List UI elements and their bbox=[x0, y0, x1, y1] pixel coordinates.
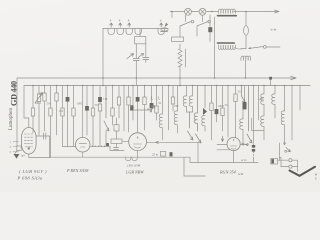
svg-text:1SSt 1t5W: 1SSt 1t5W bbox=[127, 164, 141, 168]
svg-text:P REN SA38: P REN SA38 bbox=[66, 168, 89, 173]
svg-text:( LGB 9GV ): ( LGB 9GV ) bbox=[19, 169, 47, 174]
svg-text:w G: w G bbox=[241, 158, 247, 162]
svg-text:1n5: 1n5 bbox=[21, 155, 26, 158]
svg-text:1M: 1M bbox=[59, 109, 64, 113]
svg-text:5M: 5M bbox=[47, 102, 52, 106]
svg-text:0M1: 0M1 bbox=[35, 101, 41, 105]
svg-text:0M1: 0M1 bbox=[218, 104, 224, 108]
svg-text:2M: 2M bbox=[259, 97, 264, 101]
svg-text:W: W bbox=[315, 173, 318, 177]
svg-text:25 m: 25 m bbox=[152, 153, 159, 157]
svg-text:5G: 5G bbox=[131, 105, 136, 109]
svg-text:P 698 SA3a: P 698 SA3a bbox=[17, 176, 44, 181]
svg-text:LGB NBW: LGB NBW bbox=[125, 170, 144, 175]
svg-text:50: 50 bbox=[158, 101, 162, 105]
svg-text:5G: 5G bbox=[225, 103, 230, 107]
svg-text:Lumophon: Lumophon bbox=[9, 108, 14, 130]
svg-text:1M: 1M bbox=[147, 107, 152, 111]
svg-text:50: 50 bbox=[95, 103, 99, 107]
svg-text:w br: w br bbox=[271, 28, 278, 32]
svg-text:GD 440: GD 440 bbox=[10, 81, 19, 106]
svg-text:E: E bbox=[314, 178, 317, 181]
svg-text:0M5: 0M5 bbox=[77, 102, 83, 106]
svg-text:2M: 2M bbox=[174, 104, 179, 108]
svg-text:5G: 5G bbox=[238, 90, 243, 94]
svg-text:RGN 354: RGN 354 bbox=[219, 170, 236, 175]
svg-text:1M: 1M bbox=[103, 97, 108, 101]
